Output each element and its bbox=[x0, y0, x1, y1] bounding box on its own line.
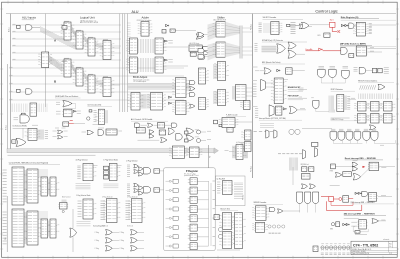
flag sel 2 out wire bbox=[117, 164, 122, 166]
band row OR h bbox=[168, 128, 174, 135]
MF-DIS out wire 1 bbox=[368, 48, 397, 50]
svg-text:PD Bus: PD Bus bbox=[251, 166, 253, 172]
P flag gate bit5 bbox=[169, 227, 171, 229]
alu-ctl wires bbox=[141, 124, 147, 126]
shifter OR wire bbox=[204, 34, 208, 36]
int cluster mux a bbox=[303, 150, 306, 160]
svg-text:C Flag: C Flag bbox=[95, 240, 100, 242]
inv selector box above gate bbox=[21, 113, 25, 115]
BRK label box 2 bbox=[351, 225, 357, 227]
reg rw ribbon left 1 bbox=[233, 146, 236, 159]
ROP1 vgate bbox=[313, 101, 319, 109]
B input wires bbox=[9, 68, 184, 100]
MF-DIS out label b bbox=[370, 50, 374, 52]
flag vgate wires bbox=[333, 140, 395, 143]
svg-text:GMACRO/S logic: GMACRO/S logic bbox=[331, 118, 344, 121]
control ROM underline bbox=[9, 164, 60, 166]
border tick marks right bbox=[396, 9, 399, 249]
int cluster box bbox=[312, 143, 318, 147]
BRK loop box bbox=[355, 231, 360, 234]
band row AND mid bbox=[98, 130, 104, 136]
MF-DIS underline light bbox=[340, 46, 396, 48]
forcebrk red inverter bbox=[319, 48, 322, 51]
BCD vertical wire bbox=[72, 209, 74, 228]
shifter sel label bbox=[197, 45, 200, 47]
flag block A IC bbox=[83, 199, 96, 219]
inv detector label bbox=[32, 124, 38, 126]
separator rule below band bbox=[8, 154, 96, 156]
ROM block 2 latch IC bbox=[24, 211, 42, 245]
shifter big IC out wires bbox=[246, 88, 252, 96]
band row gate pair a2 bbox=[58, 135, 63, 139]
reset underline bbox=[345, 159, 383, 161]
indirect hatch row bbox=[359, 94, 393, 100]
ALU CIN small box bbox=[190, 52, 196, 56]
reset lower gate 2 bbox=[353, 174, 360, 181]
branch wires bbox=[217, 249, 240, 251]
ROP1 IC bbox=[337, 95, 344, 112]
BCD correct circle bbox=[62, 210, 64, 212]
band row gate b bbox=[87, 130, 94, 134]
logical unit ribbon from A bus bbox=[40, 27, 76, 50]
mid circle label 2 bbox=[207, 139, 211, 141]
ROP1 vgate wire bbox=[316, 109, 329, 112]
flag block A sublabels bbox=[77, 222, 91, 226]
MF-DIS underline dark bbox=[340, 44, 372, 46]
NMI red loop bbox=[327, 201, 362, 210]
IPC out wire bbox=[289, 26, 291, 28]
flag vgate 6 bbox=[371, 132, 378, 141]
shifter IC mid bbox=[199, 68, 209, 84]
adder feed stubs bbox=[127, 23, 130, 65]
PD bus feed vertical bbox=[208, 145, 210, 168]
int cluster boxes 2 bbox=[302, 167, 307, 172]
band row gate f1 bbox=[149, 130, 154, 134]
state wire left bbox=[295, 25, 302, 27]
BCD adjust IC a bbox=[147, 93, 166, 111]
svg-text:FETCH/SOP: FETCH/SOP bbox=[288, 95, 300, 97]
svg-text:C Flag: C Flag bbox=[120, 240, 125, 242]
state note text bbox=[370, 24, 396, 26]
title block outline bbox=[351, 241, 397, 254]
ROM block 1 top wires bbox=[38, 170, 48, 176]
ROM block 2 ROM IC bbox=[12, 209, 27, 247]
shifter IC3 ribbon bbox=[214, 64, 217, 79]
state inverter pair 1 bbox=[341, 24, 343, 26]
state pin text right bbox=[369, 24, 372, 34]
ALU CIN logic box bbox=[189, 45, 202, 51]
logical unit stair2 IC2 bbox=[73, 68, 87, 86]
P flag gate bit4 bbox=[169, 217, 171, 219]
ROM block 2 narrow IC a bbox=[38, 219, 51, 238]
NMI gate trio 2 bbox=[305, 192, 311, 204]
P flag FF bit3 pins bbox=[188, 207, 190, 209]
ROP1 left labels bbox=[299, 88, 304, 90]
adder slice labels row2 bbox=[168, 59, 173, 61]
fetch row3 mux bbox=[269, 105, 274, 117]
svg-text:2 Flag Selector: 2 Flag Selector bbox=[126, 159, 138, 162]
BRK input circle bbox=[331, 223, 334, 226]
ROM block 1 narrow IC a bbox=[38, 177, 51, 196]
int tiny labels row2 bbox=[278, 153, 302, 155]
indirect slant OR bbox=[378, 84, 385, 89]
svg-text:ALU: ALU bbox=[132, 10, 139, 14]
state wire or-to-red bbox=[310, 24, 330, 26]
ROM block 1 latch IC bbox=[24, 169, 42, 203]
IPC tiny box bbox=[287, 24, 290, 26]
flag block 1 gate 3 bbox=[106, 246, 113, 252]
band row gate pair a1 bbox=[58, 130, 63, 134]
reset gate label bbox=[353, 160, 358, 162]
flag block 1 gate 1 out bbox=[113, 231, 120, 233]
reg rw 2 pins bbox=[217, 182, 220, 193]
flag block 1 pins bbox=[101, 201, 106, 219]
flag sel IC 1 bbox=[83, 164, 96, 181]
reset diag wire bbox=[361, 169, 370, 177]
svg-text:100 IPC Decoder: 100 IPC Decoder bbox=[263, 17, 277, 19]
BCD adjust ribbon bbox=[141, 94, 149, 109]
carry OR gate bbox=[196, 34, 204, 39]
logical unit stair1 IC2 label bbox=[76, 29, 81, 31]
band row j2 inbox bbox=[185, 139, 189, 142]
interrupt status underline bbox=[259, 119, 302, 121]
shifter left fan 1 bbox=[208, 22, 217, 40]
flag sel 1 out wire bbox=[93, 165, 98, 167]
P flag input box bit1 bbox=[173, 188, 178, 192]
svg-text:BRK (Branch Not Taken): BRK (Branch Not Taken) bbox=[262, 61, 281, 64]
sub/add in label box bbox=[56, 110, 61, 112]
svg-text:ROP1 Detector: ROP1 Detector bbox=[331, 88, 344, 91]
band row pair labels bbox=[53, 131, 57, 136]
svg-text:4x Flag Selector: 4x Flag Selector bbox=[76, 159, 89, 162]
svg-text:1.0: 1.0 bbox=[389, 246, 391, 248]
BRK loop wire bbox=[353, 227, 368, 232]
ALU Inputs underline bbox=[22, 19, 34, 21]
adder carry inverter bbox=[166, 24, 168, 27]
fetch IC label wire bbox=[283, 79, 288, 81]
border tick marks top bbox=[8, 1, 383, 4]
shifter IC 1 bbox=[213, 22, 229, 37]
band row OR j1 bbox=[186, 128, 194, 134]
NMI out label bbox=[381, 195, 386, 197]
svg-text:S0 S1 sel: S0 S1 sel bbox=[102, 226, 109, 228]
P flag FF bit4 pins bbox=[188, 216, 190, 218]
ROP1 hatch left bbox=[329, 96, 334, 110]
logical unit stair2 IC3 label bbox=[88, 73, 93, 75]
flag cluster 1 gate b bbox=[138, 167, 143, 171]
IPC gate wire bbox=[290, 24, 299, 26]
decoupling capacitor C2 bbox=[325, 246, 328, 251]
cap row labels bbox=[321, 252, 354, 254]
branch transistor 2 bbox=[218, 234, 222, 238]
branch test IC a2 bbox=[219, 232, 235, 249]
input gate box B bbox=[17, 89, 21, 92]
SRUR gate b bbox=[278, 209, 283, 213]
state IC bbox=[353, 22, 369, 36]
shifter sel gate b bbox=[198, 55, 204, 59]
P Register panel bbox=[164, 168, 216, 251]
svg-text:P Register: P Register bbox=[186, 170, 198, 173]
sub/add in labels bbox=[56, 101, 60, 103]
SRUR caps bbox=[268, 225, 285, 228]
flag cluster 1 gate a bbox=[134, 164, 139, 168]
inv selector big gate bbox=[20, 115, 29, 123]
svg-text:1 Flag Select Mode: 1 Flag Select Mode bbox=[103, 159, 118, 162]
svg-text:ALU Control - BCD Enable: ALU Control - BCD Enable bbox=[131, 118, 152, 121]
wire gate A out bbox=[32, 27, 40, 29]
mid circle gate 1 bbox=[197, 130, 201, 134]
adder slice out wire row2 bbox=[164, 65, 189, 67]
svg-text:(MI) interrupt BRK → RESP/MOS: (MI) interrupt BRK → RESP/MOS bbox=[344, 213, 376, 216]
cap row labels 2 bbox=[321, 254, 354, 256]
state red box bbox=[330, 22, 336, 27]
sub/add OR gate bbox=[63, 101, 72, 107]
svg-text:Adder: Adder bbox=[142, 16, 150, 20]
inv selector wire ticks left bbox=[11, 104, 27, 113]
logical unit stair1 ribbon c bbox=[95, 42, 102, 49]
state OR gate left bbox=[302, 22, 310, 29]
flag cluster 1 out box bbox=[154, 169, 160, 173]
P flag input box bit3 bbox=[173, 207, 178, 211]
flag cluster 1 gate d bbox=[138, 172, 143, 176]
flag block 2 gate 3 out bbox=[138, 247, 145, 249]
indirect underline bbox=[358, 81, 394, 83]
NMI gate trio 3 bbox=[313, 192, 319, 204]
top right in labels bbox=[354, 68, 358, 72]
P panel out labels bbox=[213, 181, 216, 246]
P_BUS underline bbox=[226, 115, 246, 117]
P flag gate bit7 bbox=[169, 245, 171, 247]
NMI inverter pair 2 bbox=[358, 192, 360, 194]
fetch row3 pins bbox=[255, 109, 258, 118]
decoupling capacitor C3 bbox=[329, 246, 332, 251]
sync band lines bbox=[262, 46, 277, 51]
shifter IC 3 bbox=[214, 62, 229, 81]
SRUR gate a bbox=[270, 207, 275, 211]
P flag FF bit2 pins bbox=[188, 197, 190, 199]
mid circle gate 2 bbox=[197, 139, 201, 143]
fetch row1 OR bbox=[264, 68, 271, 74]
mid circle label 1 bbox=[207, 130, 211, 132]
BRK underline bbox=[344, 215, 386, 217]
svg-text:FREQUENCY: ROM(P): FREQUENCY: ROM(P) bbox=[352, 251, 366, 253]
ROM block 1 pin labels bbox=[3, 170, 7, 202]
int labels row bbox=[254, 131, 274, 133]
flag block 2 gate 1 out bbox=[138, 231, 145, 233]
state underline dark bbox=[341, 18, 379, 20]
adder slice ribbon row1 bbox=[139, 39, 154, 53]
reg rw in label bbox=[225, 149, 229, 151]
header rule bbox=[6, 13, 396, 15]
SRUR IC b bbox=[252, 222, 268, 232]
flag cluster 1 big gate bbox=[144, 168, 151, 174]
bus A (vertical left) bbox=[10, 14, 12, 151]
ROM block 1 ribbon bbox=[25, 170, 27, 202]
int cluster box 3 bbox=[302, 174, 311, 180]
P flag gate bit3 bbox=[169, 208, 171, 210]
P flag input box bit7 bbox=[173, 244, 178, 248]
state wire gate to ic bbox=[354, 25, 356, 27]
NMI red circle bbox=[339, 198, 342, 201]
MF-DIS out wire 2 bbox=[368, 51, 383, 53]
flag cluster 1 gate c bbox=[134, 170, 139, 174]
flag cluster 1 out wire bbox=[160, 170, 165, 172]
BRK out label bbox=[381, 219, 385, 221]
P flag input wire bit3 bbox=[166, 208, 174, 210]
P flag gate bit6 bbox=[169, 236, 171, 238]
fetch mux bbox=[261, 79, 266, 91]
border tick marks left bbox=[0, 9, 3, 249]
shifter right fan 2 bbox=[225, 42, 240, 57]
bus B (vertical left inner) bbox=[7, 64, 9, 151]
BCD correct hatch bbox=[62, 200, 66, 203]
shifter junction box bbox=[214, 120, 218, 124]
ROP1 hatch right bbox=[344, 96, 346, 111]
carry gate stack 2 bbox=[203, 51, 209, 55]
input gate box bbox=[17, 25, 21, 28]
band row box mid bbox=[106, 129, 118, 135]
adder carry box a bbox=[162, 30, 166, 34]
P flag FF bit2 bbox=[190, 196, 197, 203]
BRK inverter pair 2 bbox=[346, 223, 348, 225]
ROP vgate 3 bbox=[342, 71, 350, 79]
flag block 2 IC bbox=[128, 199, 145, 223]
band row box g bbox=[159, 130, 165, 135]
sync big OR bbox=[277, 44, 286, 53]
BRK input box bbox=[336, 222, 340, 227]
IPC decoder IC bbox=[271, 22, 283, 35]
svg-text:SR/UR Decoder: SR/UR Decoder bbox=[254, 202, 267, 204]
logical unit stair2 IC2 label bbox=[76, 66, 81, 68]
sub/add inverter bbox=[73, 110, 75, 112]
sub/add loop wire bbox=[64, 104, 76, 109]
P input latch IC bbox=[169, 146, 188, 159]
NMI out wire bbox=[378, 196, 392, 198]
GMACRO wire bbox=[302, 128, 332, 130]
P flag input box bit4 bbox=[173, 216, 178, 220]
CLR pin labels bbox=[94, 111, 97, 122]
inv selector in labels bbox=[14, 117, 19, 119]
flag sel IC 2 bbox=[109, 164, 120, 181]
int cluster mux b bbox=[315, 148, 318, 158]
band row j labels bbox=[195, 130, 199, 137]
flag cluster 2 big gate bbox=[144, 187, 151, 193]
svg-text:SR0 SR1 UR0 UR1: SR0 SR1 UR0 UR1 bbox=[269, 233, 281, 235]
CLR bottom label bbox=[98, 127, 104, 129]
branch box small bbox=[214, 215, 219, 220]
NMI IC bbox=[368, 193, 378, 202]
adder slice IC row1 right bbox=[155, 38, 167, 54]
ROP1 box above bbox=[311, 97, 314, 99]
P flag FF bit0 bbox=[190, 178, 197, 185]
sub/add red wire bbox=[69, 123, 74, 125]
shifter IC 2 bbox=[213, 42, 229, 57]
inv selector sublabel bbox=[13, 127, 29, 129]
P flag FF bit1 pins bbox=[188, 188, 190, 190]
BRK IC bbox=[358, 220, 368, 230]
mid circle wire 1 bbox=[201, 131, 207, 133]
svg-text:Up Reg R/W: Up Reg R/W bbox=[217, 178, 226, 180]
flag sel 1 pins bbox=[77, 166, 80, 179]
P flag input wire bit6 bbox=[166, 236, 174, 238]
sync bottom underline bbox=[262, 63, 305, 65]
logical unit stair1 IC3 label bbox=[88, 36, 93, 38]
indirect IC grid bbox=[354, 102, 369, 112]
flag cluster 1 pins bbox=[127, 165, 130, 176]
register IC input latch bbox=[38, 52, 52, 68]
svg-text:Interrupt/Status (OPTION_OPTVA: Interrupt/Status (OPTION_OPTVAL) bbox=[259, 117, 287, 120]
svg-text:(SUB/S) A/B Plus and Subtract: (SUB/S) A/B Plus and Subtract bbox=[55, 95, 79, 98]
state underline light bbox=[341, 19, 396, 21]
reset out label bbox=[381, 167, 386, 169]
shifter out wires to PD bbox=[243, 28, 253, 55]
SRUR wires right bbox=[283, 210, 300, 212]
reg rw wires left bbox=[229, 150, 233, 152]
BCD right IC bbox=[172, 78, 189, 98]
BCD lower IC bbox=[172, 101, 189, 115]
svg-text:Control ROM - MIR (Micro Instr: Control ROM - MIR (Micro Instruction Reg… bbox=[9, 161, 49, 164]
decoupling capacitor C4 bbox=[334, 246, 337, 251]
reset wire in bbox=[335, 165, 352, 167]
state gate a bbox=[349, 23, 354, 29]
P input latch IC 2 bbox=[186, 147, 202, 158]
ROP1 pin labels right bbox=[347, 97, 350, 110]
sub/add out wire bbox=[74, 123, 85, 125]
indirect OR gate bbox=[370, 125, 376, 130]
NMI red wire out bbox=[349, 197, 354, 199]
svg-text:C Flag: C Flag bbox=[120, 248, 125, 250]
BCD right gates c bbox=[190, 93, 195, 97]
reset sub label bbox=[330, 185, 340, 187]
reg rw IC 2 bbox=[221, 181, 233, 195]
NMI gate trio 1 bbox=[297, 192, 303, 204]
svg-text:1 / 1: 1 / 1 bbox=[389, 253, 392, 255]
sub/add underline bbox=[55, 97, 81, 99]
alu-ctl box bbox=[158, 123, 165, 128]
band row gate f2 bbox=[149, 134, 154, 138]
bus DB bottom-left bbox=[6, 196, 8, 252]
reg rw subpanel bbox=[216, 176, 246, 206]
NMI red wire mid bbox=[334, 198, 339, 200]
band row box f bbox=[136, 128, 145, 134]
shifter lower IC bbox=[219, 118, 239, 128]
reg rw IC 1 bbox=[233, 145, 247, 160]
svg-text:Rule Register (S): Rule Register (S) bbox=[341, 16, 359, 19]
ROP vgate 2 bbox=[329, 70, 337, 78]
shifter OR gate left bbox=[198, 32, 204, 37]
top right boxes bbox=[372, 68, 376, 72]
adder slice IC row2 left bbox=[126, 57, 137, 73]
flag gate row labels bbox=[331, 129, 376, 131]
band row OR j2 bbox=[186, 135, 194, 141]
logical unit stair2 IC3 bbox=[85, 75, 99, 93]
flag vgate 5 bbox=[363, 132, 370, 141]
BCD adjust IC b bbox=[128, 93, 144, 111]
flag row out label bbox=[380, 144, 384, 146]
adder slice IC row1 left bbox=[126, 38, 137, 54]
branch transistor 1 bbox=[218, 227, 222, 231]
logical unit stair1 4B box bbox=[62, 26, 67, 30]
flag block 1 IC bbox=[103, 199, 120, 223]
top right wire bbox=[366, 70, 372, 72]
int mux b bbox=[274, 130, 277, 138]
reset OR gate 1 bbox=[352, 162, 357, 166]
logical unit stair1 IC1 label bbox=[64, 20, 69, 22]
NMI black box bbox=[343, 196, 349, 203]
carry gate stack 3 bbox=[199, 55, 205, 59]
shifter out ribbon left bbox=[214, 91, 217, 104]
ROM block 1 narrow ribbon bbox=[48, 179, 50, 195]
